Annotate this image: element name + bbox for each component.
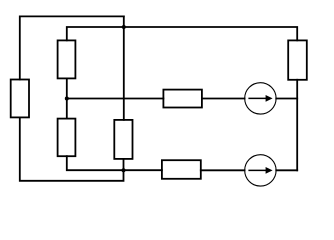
wire from R1 bottom down and along bottom to node C	[20, 117, 124, 180]
wire right rail: R6 bottom down to lower row	[296, 80, 298, 171]
resistor R1 (far left vertical)	[11, 80, 29, 118]
wire current source I1 to right rail	[276, 98, 297, 100]
wire R3 bottom down to lower net	[67, 156, 162, 170]
resistor R5 (middle vertical)	[114, 120, 132, 159]
resistor R4 (upper horizontal)	[163, 90, 202, 108]
node A junction dot	[65, 97, 69, 101]
wire current source I2 to right rail bottom	[276, 169, 297, 171]
wire node A to resistor R4 left	[67, 98, 164, 100]
wire node B vertical drop to resistor R5 top	[123, 16, 125, 120]
resistor R6 (far right vertical)	[288, 40, 307, 79]
wire R4 right to current source I1	[202, 98, 245, 100]
wire top net: R2 top to right resistor R6 top	[67, 27, 297, 40]
wire top-left loop: from node B down left side to resistor R1 top	[20, 16, 124, 79]
node B junction dot	[122, 25, 126, 29]
current source I2	[245, 155, 276, 186]
resistor R3 (lower left vertical)	[58, 119, 76, 157]
wire R5 bottom to node C	[123, 159, 125, 170]
wire R7 right to current source I2	[201, 169, 245, 171]
resistor R7 (lower horizontal)	[162, 160, 201, 179]
resistor R2 (upper middle vertical)	[58, 40, 76, 78]
current source I1	[245, 83, 276, 114]
wire R2 bottom through node A to resistor R3 top	[66, 78, 68, 118]
node C junction dot	[122, 168, 126, 172]
